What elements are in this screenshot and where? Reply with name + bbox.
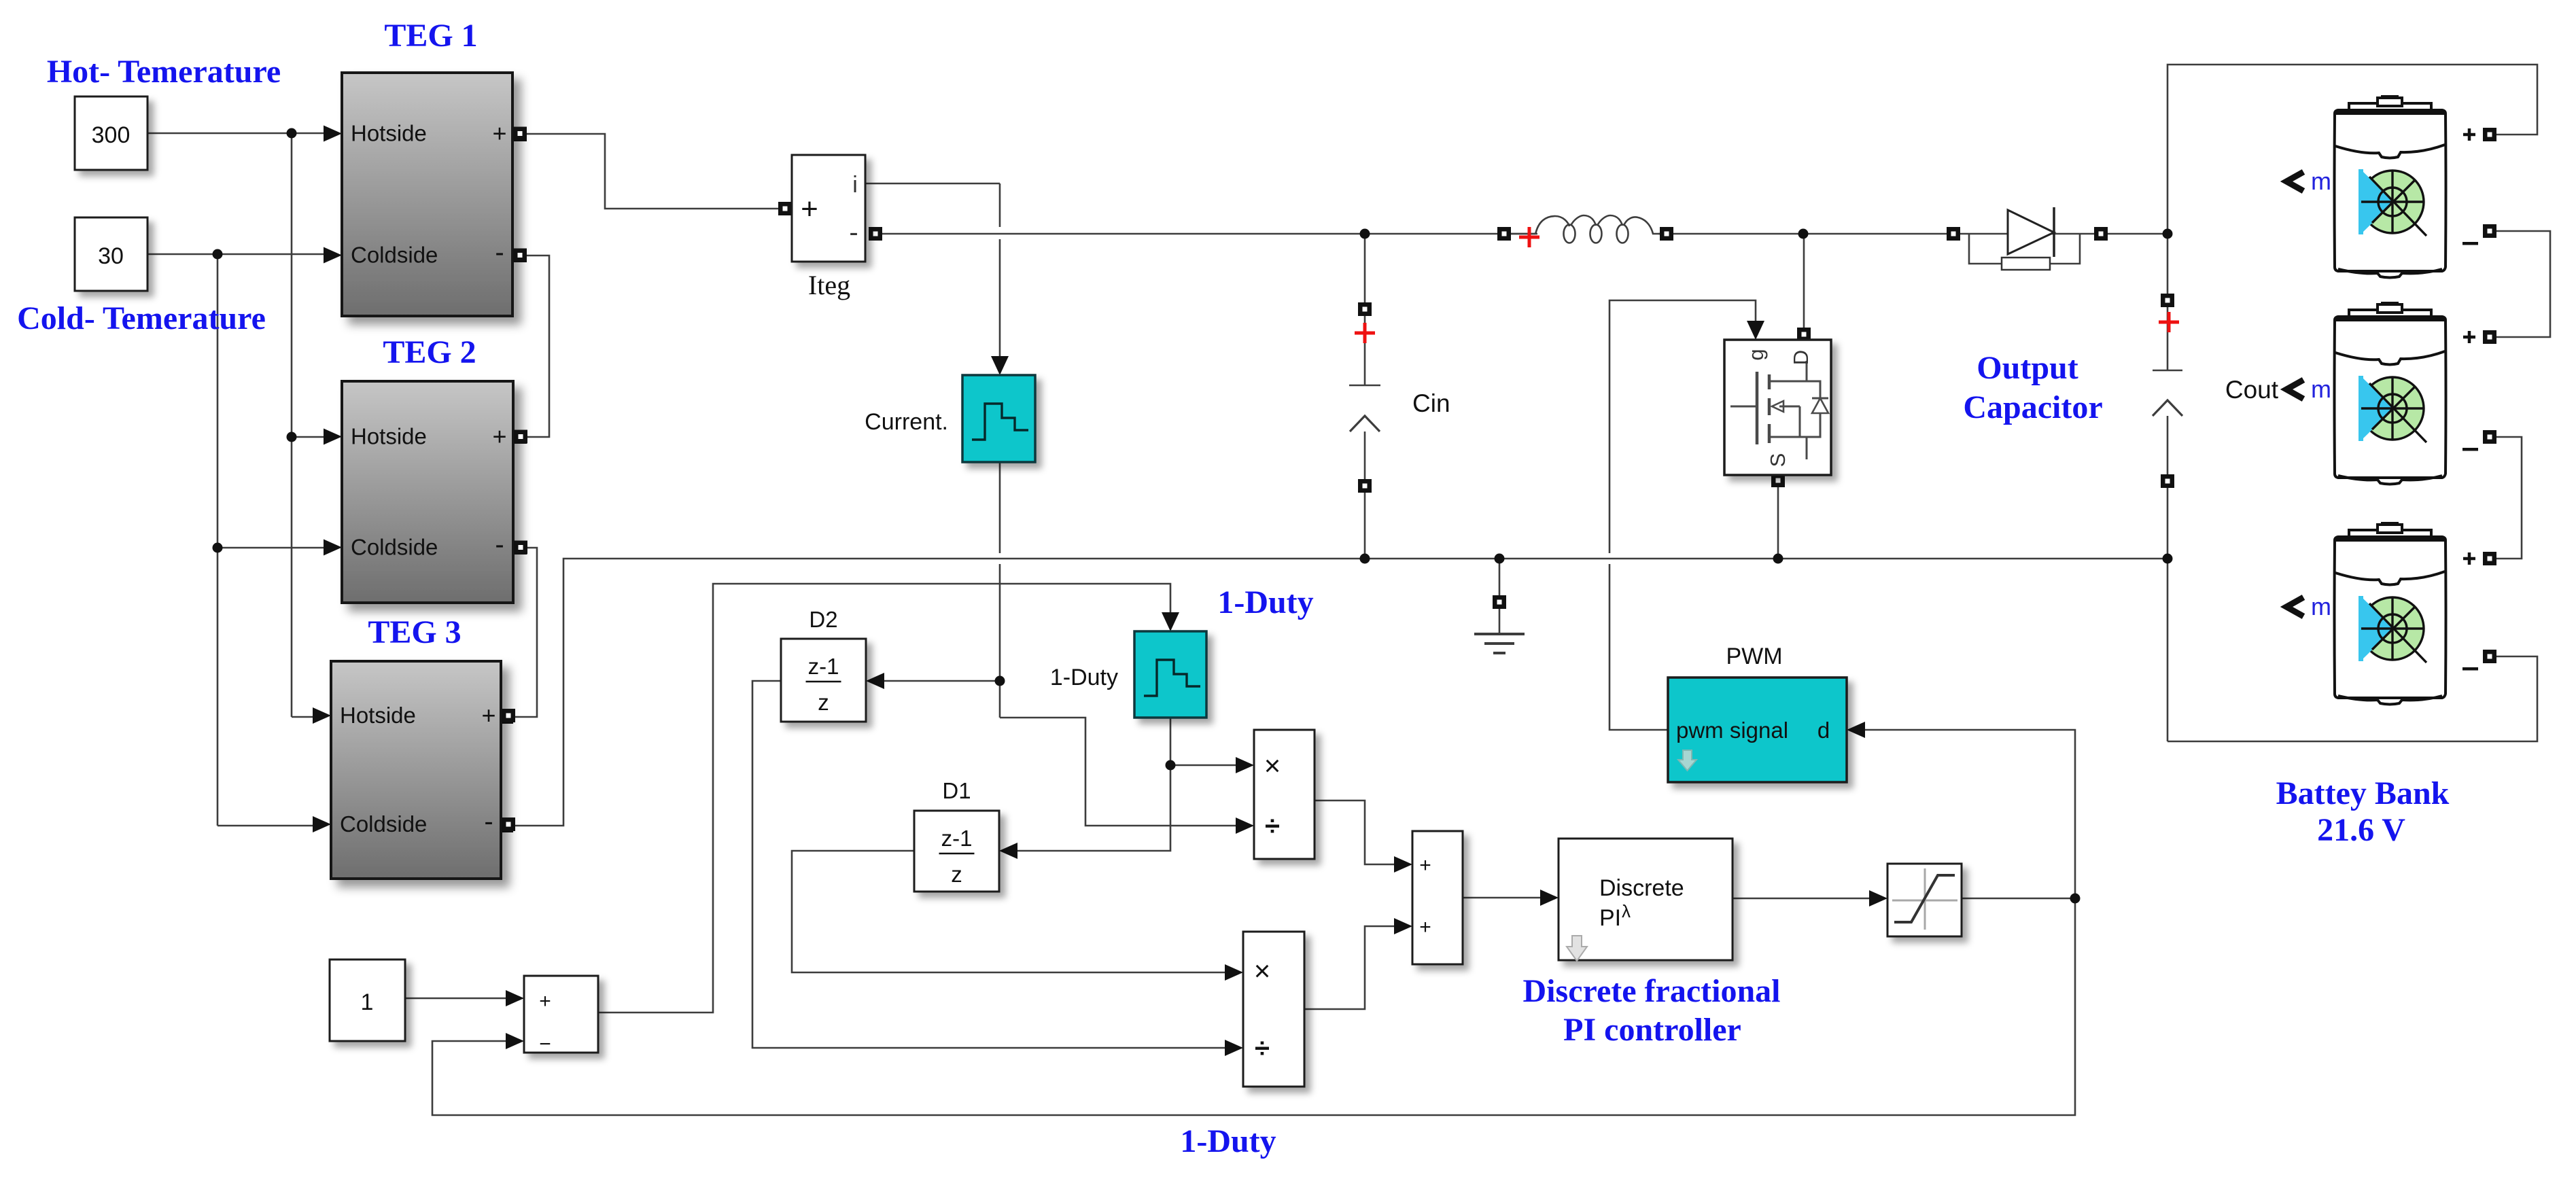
svg-text:21.6 V: 21.6 V — [2317, 812, 2405, 848]
svg-text:1-Duty: 1-Duty — [1050, 665, 1118, 690]
svg-text:Cin: Cin — [1412, 389, 1450, 417]
svg-text:Iteg: Iteg — [808, 270, 850, 300]
svg-text:m: m — [2311, 167, 2331, 195]
svg-text:+: + — [492, 120, 506, 147]
svg-text:×: × — [1264, 750, 1281, 781]
svg-text:z: z — [951, 862, 962, 887]
svg-text:-: - — [849, 217, 858, 247]
svg-text:Coldside: Coldside — [351, 535, 438, 560]
svg-text:Hotside: Hotside — [340, 703, 416, 728]
svg-text:z-1: z-1 — [808, 654, 839, 679]
svg-text:Cout: Cout — [2225, 376, 2279, 404]
svg-text:Battey Bank: Battey Bank — [2276, 775, 2450, 811]
svg-text:Hot- Temerature: Hot- Temerature — [47, 54, 281, 90]
svg-text:PI controller: PI controller — [1563, 1012, 1741, 1048]
svg-text:TEG 1: TEG 1 — [384, 18, 477, 54]
svg-text:z-1: z-1 — [941, 826, 973, 851]
svg-text:Capacitor: Capacitor — [1963, 389, 2102, 425]
svg-text:-: - — [495, 530, 504, 560]
svg-text:Discrete fractional: Discrete fractional — [1523, 973, 1781, 1009]
svg-text:+: + — [539, 990, 551, 1013]
svg-text:-: - — [484, 807, 493, 837]
svg-text:Hotside: Hotside — [351, 121, 427, 146]
svg-text:D1: D1 — [942, 778, 971, 803]
svg-text:+: + — [481, 701, 495, 729]
svg-text:1-Duty: 1-Duty — [1180, 1123, 1276, 1159]
svg-text:+: + — [492, 423, 506, 451]
svg-text:+: + — [1419, 916, 1431, 938]
svg-text:300: 300 — [92, 122, 130, 148]
svg-text:TEG 2: TEG 2 — [383, 334, 476, 370]
svg-text:PI: PI — [1599, 905, 1621, 931]
svg-text:pwm signal: pwm signal — [1676, 718, 1788, 743]
svg-text:-: - — [495, 238, 504, 268]
svg-text:i: i — [852, 172, 858, 198]
svg-text:+: + — [1419, 854, 1431, 877]
svg-text:−: − — [539, 1033, 551, 1055]
svg-text:+: + — [801, 192, 818, 226]
svg-text:Current.: Current. — [865, 409, 948, 435]
svg-text:1: 1 — [361, 989, 374, 1015]
svg-text:1-Duty: 1-Duty — [1217, 584, 1313, 620]
svg-text:Discrete: Discrete — [1599, 875, 1684, 901]
svg-text:30: 30 — [98, 243, 124, 269]
svg-text:λ: λ — [1622, 901, 1631, 921]
svg-text:d: d — [1817, 718, 1830, 743]
svg-text:z: z — [818, 690, 829, 715]
svg-text:×: × — [1254, 955, 1271, 987]
svg-text:÷: ÷ — [1265, 811, 1280, 841]
svg-text:÷: ÷ — [1255, 1034, 1270, 1063]
svg-text:Coldside: Coldside — [351, 243, 438, 268]
svg-text:D2: D2 — [809, 607, 837, 632]
svg-text:Cold- Temerature: Cold- Temerature — [17, 300, 266, 336]
svg-text:D: D — [1789, 350, 1813, 365]
svg-text:Output: Output — [1977, 350, 2078, 386]
svg-text:Hotside: Hotside — [351, 424, 427, 449]
svg-text:m: m — [2311, 593, 2331, 620]
svg-text:m: m — [2311, 375, 2331, 403]
svg-text:g: g — [1744, 349, 1768, 360]
svg-text:S: S — [1766, 453, 1790, 468]
svg-text:TEG 3: TEG 3 — [368, 614, 461, 650]
svg-text:Coldside: Coldside — [340, 811, 427, 837]
svg-text:PWM: PWM — [1726, 644, 1782, 669]
